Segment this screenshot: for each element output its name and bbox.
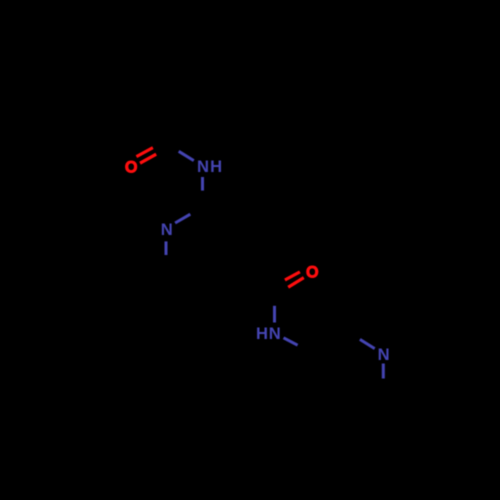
bond C=O2 inner line (red half) [285,272,300,280]
bond C-NH (blue half, up-left toward carbonyl C) [179,151,194,160]
bond C=O2 main line (red half) [288,278,304,288]
svg-text:H: H [210,157,222,176]
bond N1-C6 (blue half, vertical down) [165,241,168,255]
svg-text:N: N [197,157,209,176]
svg-text:O: O [306,264,319,282]
bond C=O1 outer line (red half) [136,148,153,157]
bond HN-CH2 (blue half, down-right) [284,338,298,345]
svg-text:N: N [161,220,173,239]
svg-text:H: H [256,324,268,343]
bond NH-C2 ring (blue half, vertical down) [201,177,204,191]
bond C=O1 inner line (red half) [140,154,156,163]
bond N1-C2 (blue half, up-right) [175,214,190,223]
bond C2'-N2 (blue half, up-left) [360,339,375,348]
bond C-N(H) amide 2 (blue half, vertical) [273,306,276,323]
svg-text:N: N [378,345,390,364]
svg-text:N: N [269,324,281,343]
svg-text:O: O [125,159,138,177]
bond N2-C6' (blue half, vertical down) [382,364,385,379]
